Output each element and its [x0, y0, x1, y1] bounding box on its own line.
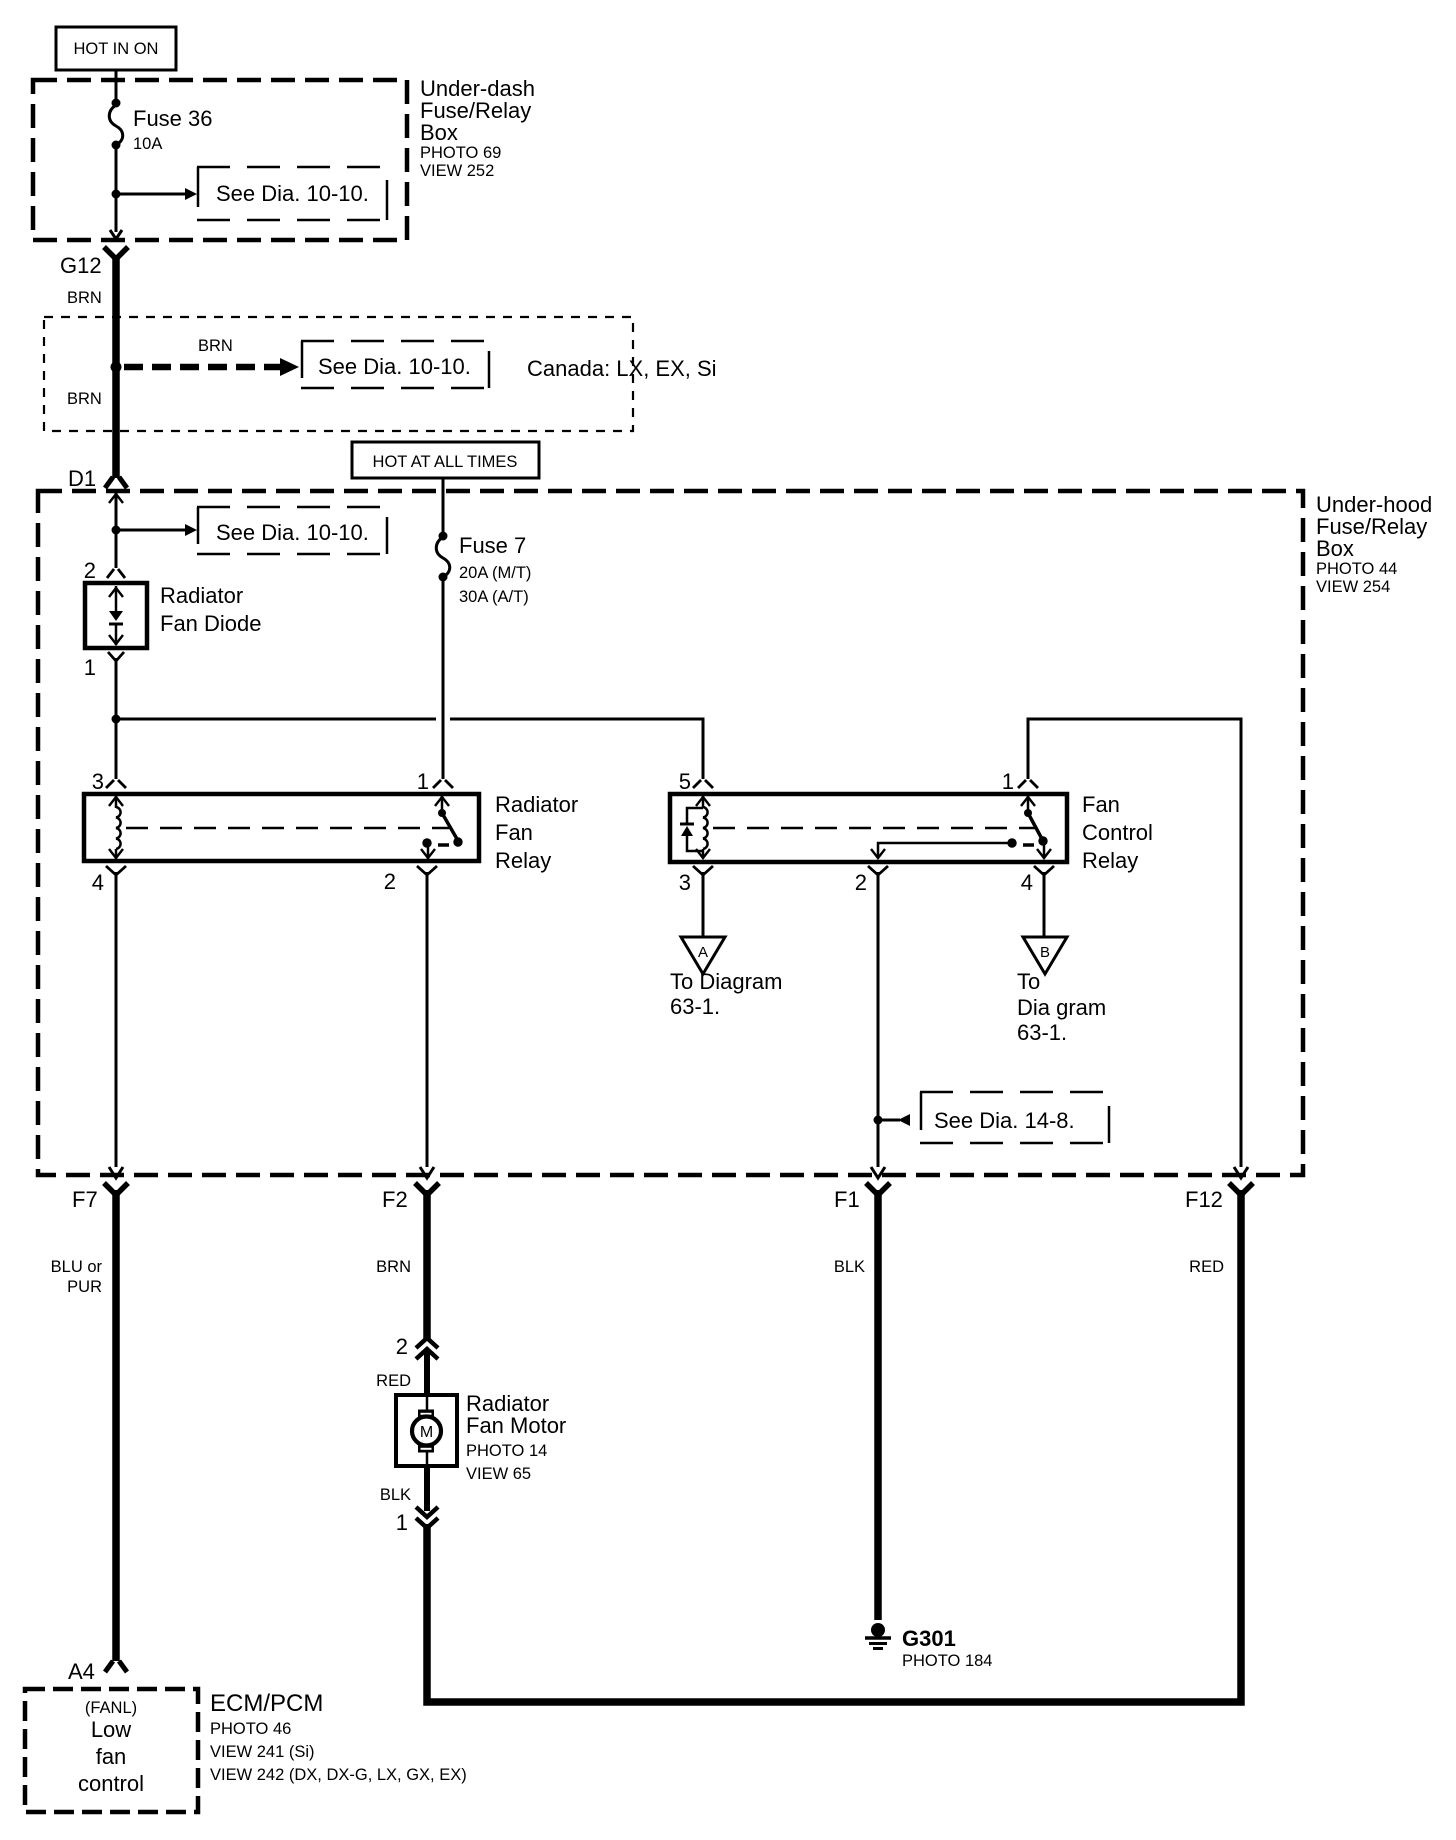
svg-text:2: 2 [396, 1334, 408, 1359]
wire relay pin 2 down to F2 [426, 872, 429, 1167]
connector G12 [60, 247, 128, 278]
wire fan control relay pin 3 to triangle A [702, 872, 705, 936]
svg-text:1: 1 [417, 769, 429, 794]
node B to-diagram triangle [1017, 937, 1106, 1045]
under-hood fuse/relay box (dashed) [38, 491, 1303, 1175]
svg-text:See Dia. 10-10.: See Dia. 10-10. [216, 181, 369, 206]
svg-text:VIEW 241 (Si): VIEW 241 (Si) [210, 1743, 315, 1761]
svg-text:BRN: BRN [376, 1258, 411, 1276]
svg-text:Canada: LX, EX, Si: Canada: LX, EX, Si [527, 356, 717, 381]
wire BRN G12 to D1 (thick) [112, 255, 120, 478]
wire fan control relay pin 4 to triangle B [1043, 872, 1046, 936]
svg-text:Relay: Relay [1082, 848, 1138, 873]
fuse F7 [436, 532, 531, 607]
svg-text:Relay: Relay [495, 848, 551, 873]
svg-text:2: 2 [855, 870, 867, 895]
node junction see dia 14-8 tap [874, 1116, 883, 1125]
svg-text:1: 1 [396, 1510, 408, 1535]
svg-text:Fuse 7: Fuse 7 [459, 533, 526, 558]
svg-text:PHOTO 69: PHOTO 69 [420, 144, 501, 162]
wire BLU/PUR F7 to A4 (thick) [112, 1190, 120, 1661]
svg-text:G12: G12 [60, 253, 102, 278]
svg-text:fan: fan [96, 1744, 127, 1769]
svg-text:PHOTO 46: PHOTO 46 [210, 1720, 291, 1738]
svg-text:Low: Low [91, 1717, 131, 1742]
reference box See Dia. 10-10. (under-hood) [197, 507, 388, 554]
svg-text:10A: 10A [133, 135, 162, 153]
svg-text:HOT IN ON: HOT IN ON [74, 40, 159, 58]
connector pin 4 fan control relay [1021, 866, 1054, 895]
label HOT IN ON [56, 27, 176, 70]
node A to-diagram triangle [670, 937, 782, 1019]
svg-text:Fuse 36: Fuse 36 [133, 106, 213, 131]
label Under-hood Fuse/Relay Box [1316, 492, 1432, 596]
svg-text:See Dia. 10-10.: See Dia. 10-10. [318, 354, 471, 379]
svg-text:ECM/PCM: ECM/PCM [210, 1690, 323, 1717]
svg-text:30A (A/T): 30A (A/T) [459, 588, 529, 606]
reference box See Dia. 10-10. (under-dash) [197, 167, 388, 220]
connector pin 3 fan control relay [679, 866, 713, 895]
diode D radiator fan diode [85, 583, 262, 648]
svg-text:2: 2 [384, 869, 396, 894]
connector pin 1 fan control relay [1002, 769, 1038, 794]
wire BLK F1 to ground (thick) [874, 1190, 882, 1620]
wire BLK motor to connector 1 (thick) [424, 1466, 430, 1511]
wire arrow to See Dia. 10-10. (under-dash) [120, 188, 197, 200]
svg-text:BLK: BLK [834, 1258, 865, 1276]
wire bus left segment [116, 718, 436, 721]
svg-text:1: 1 [1002, 769, 1014, 794]
connector pin 5 fan control relay [679, 769, 713, 794]
svg-text:63-1.: 63-1. [1017, 1020, 1067, 1045]
node junction canada tap [111, 362, 122, 373]
wire relay pin 4 down to F7 [115, 872, 118, 1167]
connector pin 1 radiator fan relay [417, 769, 453, 794]
svg-text:BRN: BRN [67, 390, 102, 408]
canada option box (dashed) [44, 317, 633, 431]
connector F2 [382, 1167, 439, 1212]
svg-text:5: 5 [679, 769, 691, 794]
wire motor return to F12 (thick) [427, 1190, 1241, 1702]
svg-text:VIEW 252: VIEW 252 [420, 162, 494, 180]
wire arrow see dia 14-8 [882, 1114, 910, 1126]
wire arrow into under-dash box bottom border [110, 230, 122, 239]
svg-text:BRN: BRN [198, 337, 233, 355]
wire HOT AT ALL TIMES to fuse 7 [442, 478, 445, 535]
label HOT AT ALL TIMES [352, 442, 539, 478]
svg-text:Fan Motor: Fan Motor [466, 1413, 566, 1438]
relay K1 radiator fan relay [84, 792, 578, 873]
ECM/PCM box (dashed) [25, 1689, 198, 1812]
wire fuse 36 to junction [115, 145, 118, 232]
svg-text:F2: F2 [382, 1187, 408, 1212]
svg-text:Box: Box [420, 120, 458, 145]
wire thick dashed BRN arrow [124, 337, 299, 376]
connector F1 [834, 1167, 890, 1212]
svg-text:20A (M/T): 20A (M/T) [459, 564, 531, 582]
svg-text:BRN: BRN [67, 289, 102, 307]
connector pin 4 radiator fan relay [92, 866, 126, 895]
label BLU or PUR [51, 1258, 103, 1296]
reference box See Dia. 10-10. (canada) [301, 341, 490, 388]
svg-text:RED: RED [376, 1372, 411, 1390]
wire bus right segment to fan control relay pin 5 [450, 719, 703, 779]
wire from HOT IN ON to fuse 36 [115, 70, 118, 101]
wire BRN F2 to motor connector (thick) [423, 1190, 431, 1339]
wire fan control relay pin 1 to bus to F12 [1028, 719, 1241, 1167]
fuse F36 [109, 99, 212, 154]
under-dash fuse/relay box (dashed) [33, 80, 407, 240]
svg-text:F1: F1 [834, 1187, 860, 1212]
svg-text:D1: D1 [68, 466, 96, 491]
node junction to see-dia arrow [112, 526, 121, 535]
svg-text:PHOTO 184: PHOTO 184 [902, 1652, 992, 1670]
node bus junction [112, 715, 121, 724]
svg-text:F12: F12 [1185, 1187, 1223, 1212]
svg-text:PHOTO 44: PHOTO 44 [1316, 560, 1397, 578]
svg-text:VIEW 254: VIEW 254 [1316, 578, 1390, 596]
svg-text:(FANL): (FANL) [85, 1699, 137, 1717]
svg-text:4: 4 [92, 870, 104, 895]
node junction under fuse 36 [112, 190, 121, 199]
svg-text:F7: F7 [72, 1187, 98, 1212]
diode D1 symbol (triangle and bar) [115, 586, 118, 611]
svg-text:A4: A4 [68, 1659, 95, 1684]
wire D1 entry arrow into under-hood box [109, 493, 123, 568]
svg-text:B: B [1040, 944, 1050, 961]
svg-text:3: 3 [92, 769, 104, 794]
relay K2 coil [702, 796, 705, 808]
svg-text:M: M [420, 1424, 433, 1441]
relay K1 coil [115, 796, 118, 808]
relay K2 actuation dashed link [713, 827, 1035, 830]
svg-text:To: To [1017, 969, 1040, 994]
motor M1 terminals and armature [426, 1396, 429, 1410]
svg-text:PHOTO 14: PHOTO 14 [466, 1442, 547, 1460]
svg-text:See Dia. 10-10.: See Dia. 10-10. [216, 520, 369, 545]
svg-text:Box: Box [1316, 536, 1354, 561]
svg-text:4: 4 [1021, 870, 1033, 895]
relay K1 actuation dashed link [126, 827, 449, 830]
svg-text:RED: RED [1189, 1258, 1224, 1276]
svg-text:BLK: BLK [380, 1486, 411, 1504]
svg-text:Dia gram: Dia gram [1017, 995, 1106, 1020]
connector pin 2 of radiator fan diode [84, 558, 125, 583]
connector A4 [68, 1659, 127, 1684]
svg-text:To Diagram: To Diagram [670, 969, 782, 994]
svg-text:63-1.: 63-1. [670, 994, 720, 1019]
relay K2 clamp diode [687, 808, 703, 824]
wire fan control relay pin 2 down to F1 [877, 872, 880, 1167]
relay K2 fan control relay [670, 792, 1153, 873]
svg-text:VIEW 242 (DX, DX-G, LX, GX, EX: VIEW 242 (DX, DX-G, LX, GX, EX) [210, 1766, 467, 1784]
svg-text:Radiator: Radiator [495, 792, 578, 817]
svg-text:Fan: Fan [1082, 792, 1120, 817]
label ECM/PCM [210, 1690, 467, 1784]
connector 2 of radiator fan motor [396, 1334, 438, 1359]
svg-text:A: A [698, 944, 708, 961]
wire RED connector to motor (thick) [424, 1352, 430, 1396]
connector F7 [72, 1167, 128, 1212]
svg-text:control: control [78, 1771, 144, 1796]
reference box See Dia. 14-8. [920, 1092, 1110, 1143]
svg-text:BLU or: BLU or [51, 1258, 103, 1276]
svg-text:2: 2 [84, 558, 96, 583]
svg-text:PUR: PUR [67, 1278, 102, 1296]
connector pin 1 of radiator fan diode [84, 652, 124, 680]
svg-text:Fan: Fan [495, 820, 533, 845]
svg-text:Radiator: Radiator [160, 583, 243, 608]
wire diode pin1 down to relay pin 3 [115, 658, 118, 779]
motor M radiator fan motor [396, 1391, 566, 1483]
relay K2 switch contact [1027, 796, 1030, 813]
connector 1 of radiator fan motor [396, 1507, 438, 1535]
svg-text:1: 1 [84, 655, 96, 680]
svg-text:Fan Diode: Fan Diode [160, 611, 262, 636]
connector D1 [68, 466, 127, 491]
ground G301 [865, 1623, 992, 1670]
relay K1 switch contact [441, 796, 444, 813]
svg-text:Control: Control [1082, 820, 1153, 845]
wire arrow to See Dia. 10-10. (under-hood) [120, 524, 197, 536]
svg-text:VIEW 65: VIEW 65 [466, 1465, 531, 1483]
wire fuse 7 to relay pin 1 [442, 577, 445, 779]
svg-text:G301: G301 [902, 1626, 956, 1651]
svg-text:HOT AT ALL TIMES: HOT AT ALL TIMES [373, 453, 518, 471]
connector pin 2 fan control relay [855, 866, 888, 895]
connector pin 2 radiator fan relay [384, 866, 437, 894]
svg-text:See Dia. 14-8.: See Dia. 14-8. [934, 1108, 1075, 1133]
svg-text:3: 3 [679, 870, 691, 895]
label Under-dash Fuse/Relay Box [420, 76, 535, 180]
connector pin 3 radiator fan relay [92, 769, 126, 794]
connector F12 [1185, 1167, 1253, 1212]
